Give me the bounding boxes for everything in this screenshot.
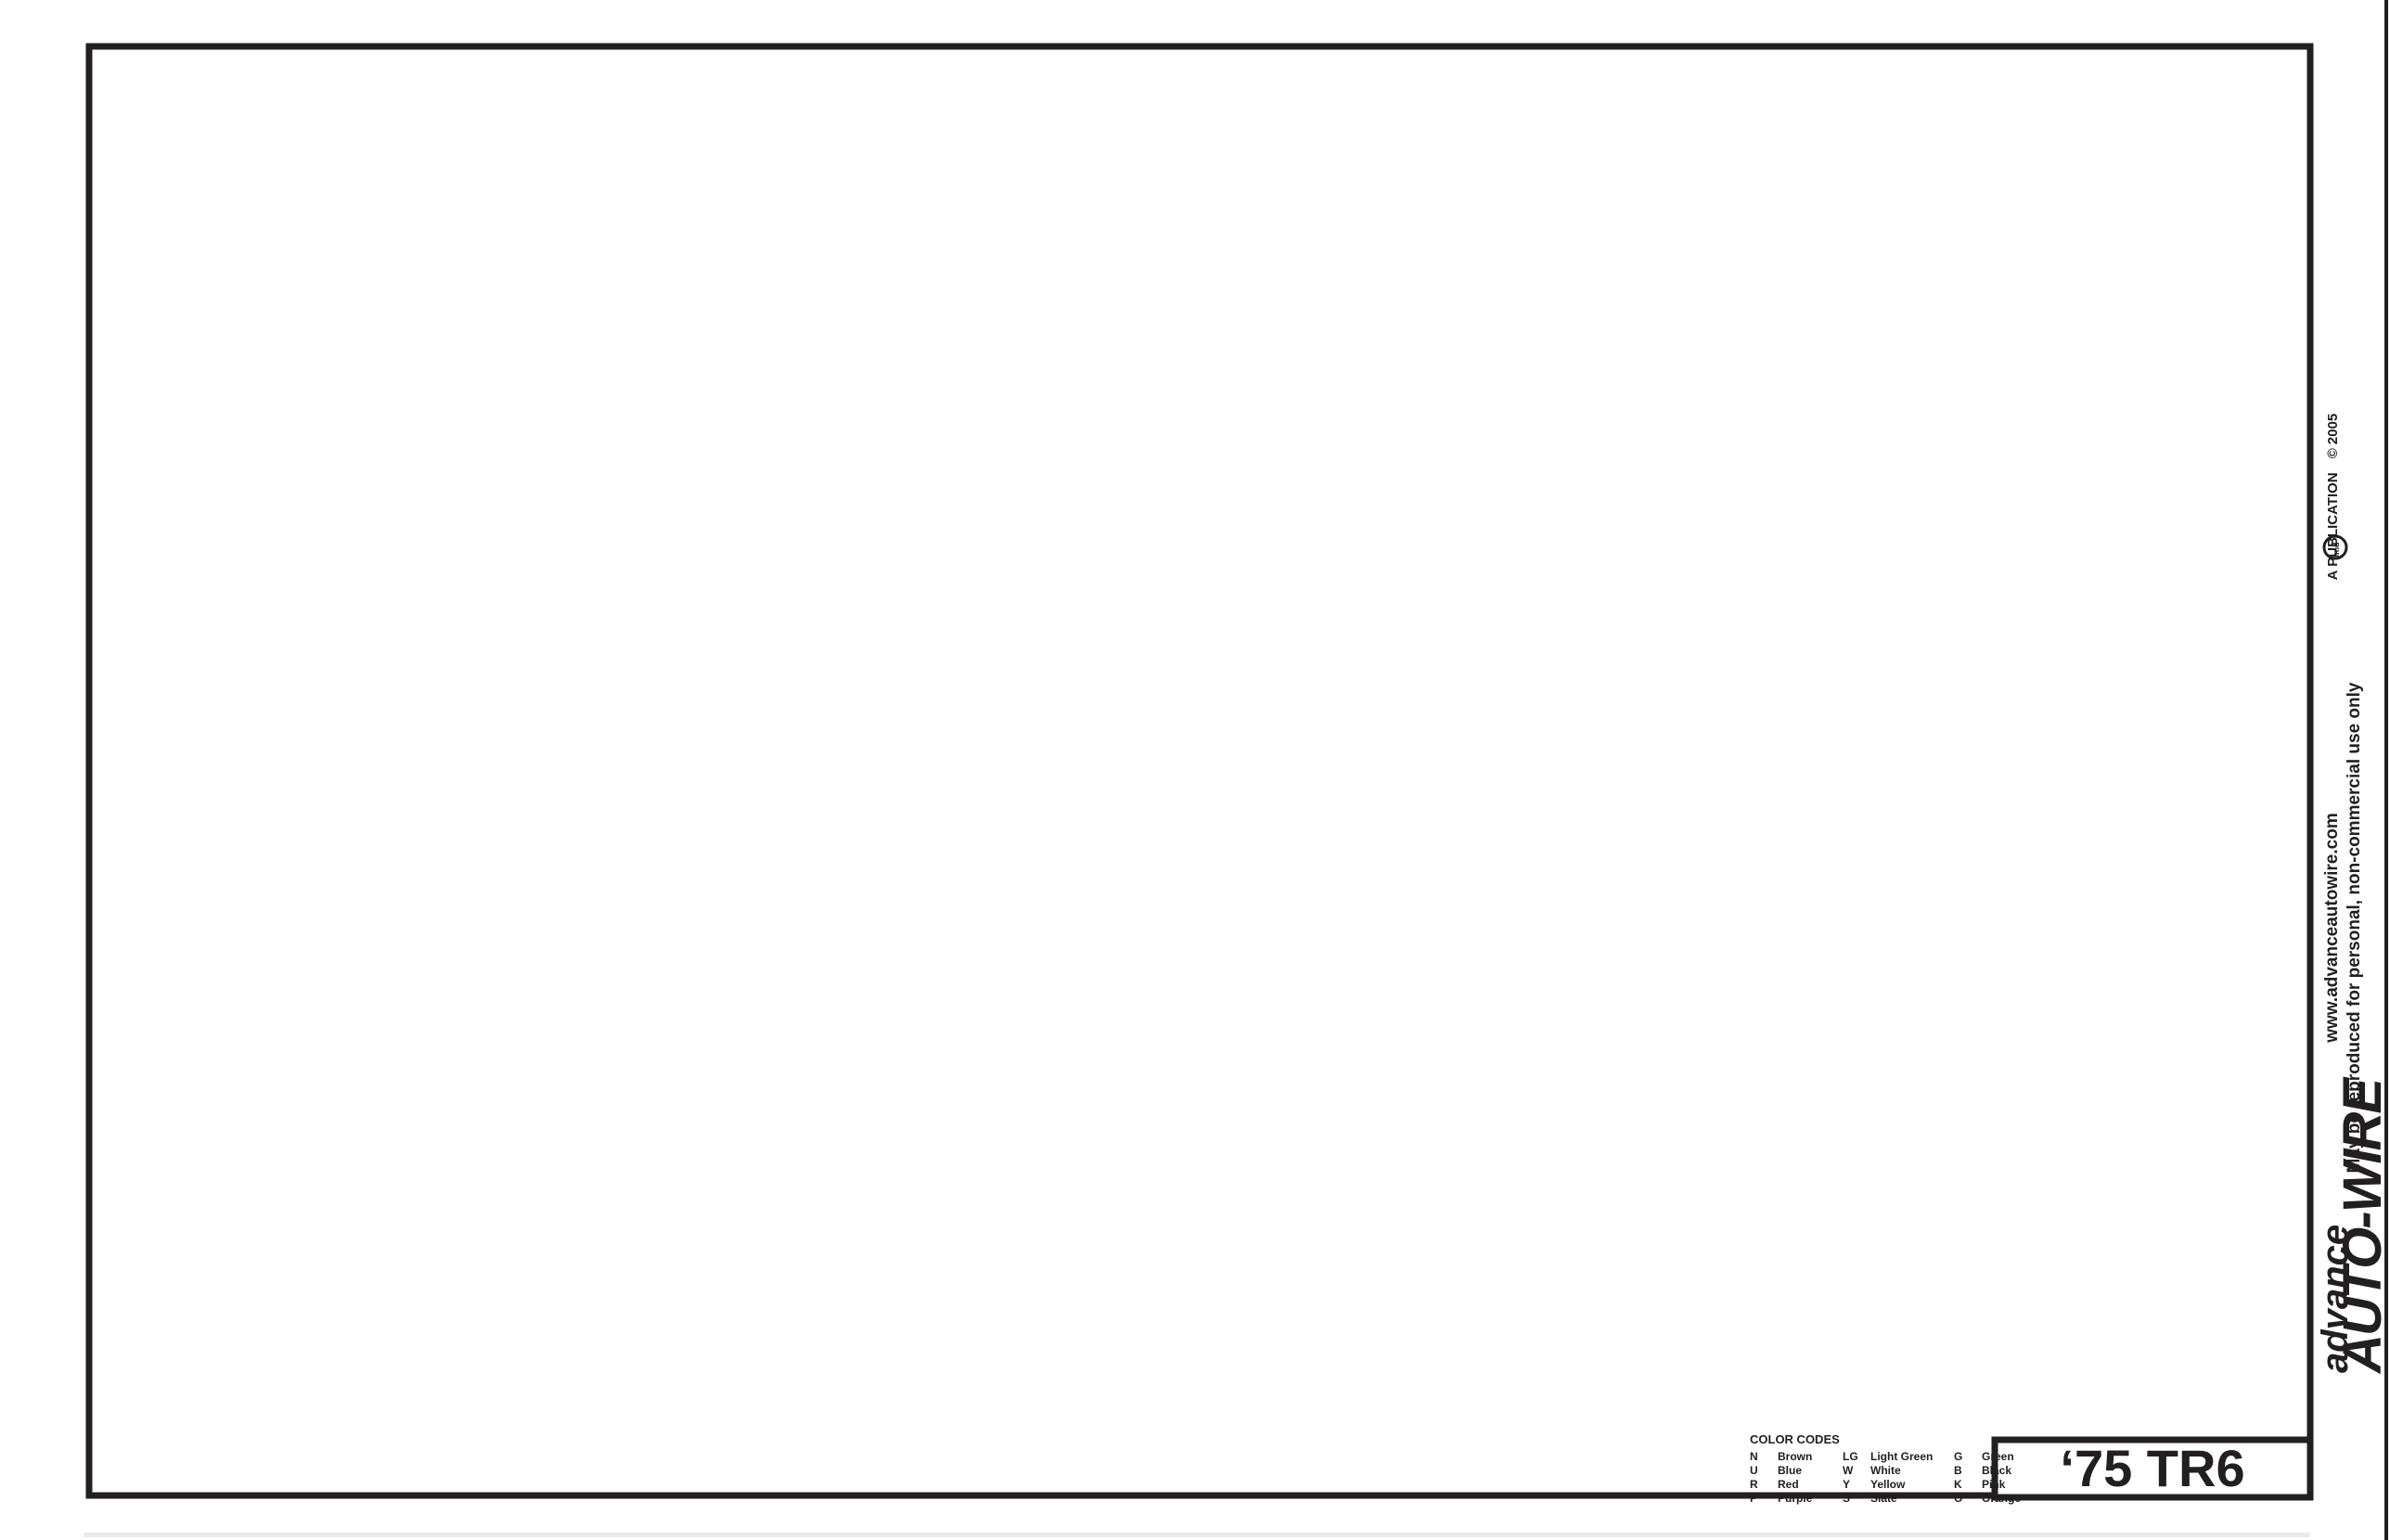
svg-text:COLOR CODES: COLOR CODES: [1750, 1432, 1840, 1446]
svg-text:W: W: [1843, 1464, 1854, 1477]
svg-text:Slate: Slate: [1870, 1492, 1897, 1505]
svg-text:Pink: Pink: [1982, 1478, 2006, 1491]
svg-text:R: R: [1750, 1478, 1758, 1491]
svg-text:© 2005: © 2005: [2325, 414, 2341, 459]
svg-text:Orange: Orange: [1982, 1492, 2021, 1505]
svg-text:Black: Black: [1982, 1464, 2011, 1477]
svg-text:www.advanceautowire.com: www.advanceautowire.com: [2322, 813, 2342, 1043]
svg-text:U: U: [1750, 1464, 1758, 1477]
svg-text:K: K: [1954, 1478, 1962, 1491]
svg-text:A: A: [2325, 570, 2341, 580]
svg-text:AUTO-WIRE: AUTO-WIRE: [2332, 1076, 2390, 1375]
svg-text:O: O: [1954, 1492, 1962, 1505]
svg-text:Y: Y: [1843, 1478, 1850, 1491]
svg-text:Yellow: Yellow: [1870, 1478, 1906, 1491]
svg-text:dmd: dmd: [2332, 543, 2341, 560]
svg-text:Green: Green: [1982, 1450, 2014, 1463]
svg-text:B: B: [1954, 1464, 1962, 1477]
svg-text:Blue: Blue: [1778, 1464, 1802, 1477]
svg-text:P: P: [1750, 1492, 1757, 1505]
svg-text:G: G: [1954, 1450, 1962, 1463]
svg-text:Purple: Purple: [1778, 1492, 1813, 1505]
svg-text:‘75 TR6: ‘75 TR6: [2060, 1439, 2244, 1497]
svg-text:N: N: [1750, 1450, 1758, 1463]
svg-text:White: White: [1870, 1464, 1901, 1477]
svg-text:Light Green: Light Green: [1870, 1450, 1933, 1463]
svg-text:S: S: [1843, 1492, 1850, 1505]
svg-text:Brown: Brown: [1778, 1450, 1812, 1463]
svg-text:Red: Red: [1778, 1478, 1799, 1491]
svg-text:LG: LG: [1843, 1450, 1858, 1463]
